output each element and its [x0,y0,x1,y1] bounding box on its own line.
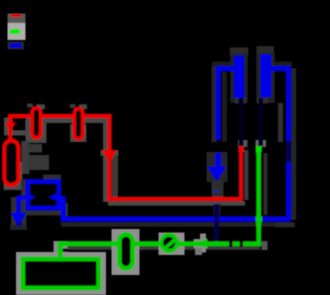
halo blue right pipe [272,62,296,228]
gray text label blobs [28,144,49,170]
green main run wire [60,149,258,257]
red top dot [238,146,244,152]
halo blue main horizontal [61,222,295,227]
halo column left cap [230,47,249,103]
green left arrow marker [197,238,207,248]
halo blue down arrow [207,152,228,215]
halo left red corner block [4,118,30,136]
radiator R1 [32,108,41,138]
halo radiator R2 [70,104,87,142]
red main loop wire [8,116,241,199]
pump slash [165,240,175,249]
gray cap above green dot [256,140,267,147]
green capsule heat exchanger [119,234,132,268]
gray cap above red dot [238,140,248,147]
halo blue left pipe [212,62,235,143]
green top dot [256,146,262,152]
navy gap right pipe [286,141,291,162]
pump circle [161,235,177,251]
red arrow A1 [5,123,15,132]
legend red swatch [11,14,22,17]
legend row 2 background [8,23,26,40]
halo green horizontal line [62,246,260,250]
blue down arrow on left pipe [207,153,226,182]
green junction dot on blue line [256,216,262,222]
halo upper red horizontal [4,118,110,124]
red left drop wire [8,116,12,139]
radiator R2 [74,109,82,139]
navy pipe under left column [239,98,244,146]
halo green vertical [262,153,268,250]
halo storage tank [16,252,106,295]
halo red right vertical up [244,150,249,200]
navy pipe under right column [259,98,264,146]
blue fat down arrow [11,213,27,227]
halo blue drop pipe + fat arrow [10,197,27,230]
blue right loop pipe [271,69,288,141]
borehole column right [261,54,272,97]
heat pump box [28,181,59,208]
navy crosser over blue horizontal [215,190,219,246]
halo heat pump box [21,175,68,217]
expansion vessel capsule [4,141,18,186]
blue left loop pipe [218,69,234,140]
heat pump inner arrow right [48,192,60,202]
halo green arrow marker [194,234,208,256]
halo green capsule [112,229,140,275]
legend blue swatch [10,43,22,48]
blue left port stub [17,195,26,200]
halo expansion vessel capsule [4,141,30,190]
dark crossing notches on green line [229,241,243,247]
legend row 1 background [8,14,26,23]
storage tank [23,259,99,288]
halo radiator R1 [26,104,47,144]
borehole column left [234,56,244,99]
blue main run wire [59,162,289,219]
heat pump inner arrow left [27,192,36,202]
halo column right cap [256,46,275,103]
blue drop pipe [16,196,21,214]
gray stubs under columns [235,97,268,104]
halo green stub corner [54,241,68,257]
halo red lower horizontal [108,201,245,206]
halo red arrow A2 [101,150,119,156]
halo pump circle [159,233,185,256]
red arrow A2 [102,150,117,163]
legend green swatch [10,29,20,34]
halo right red vertical [103,118,118,202]
legend row 3 background [8,42,25,50]
